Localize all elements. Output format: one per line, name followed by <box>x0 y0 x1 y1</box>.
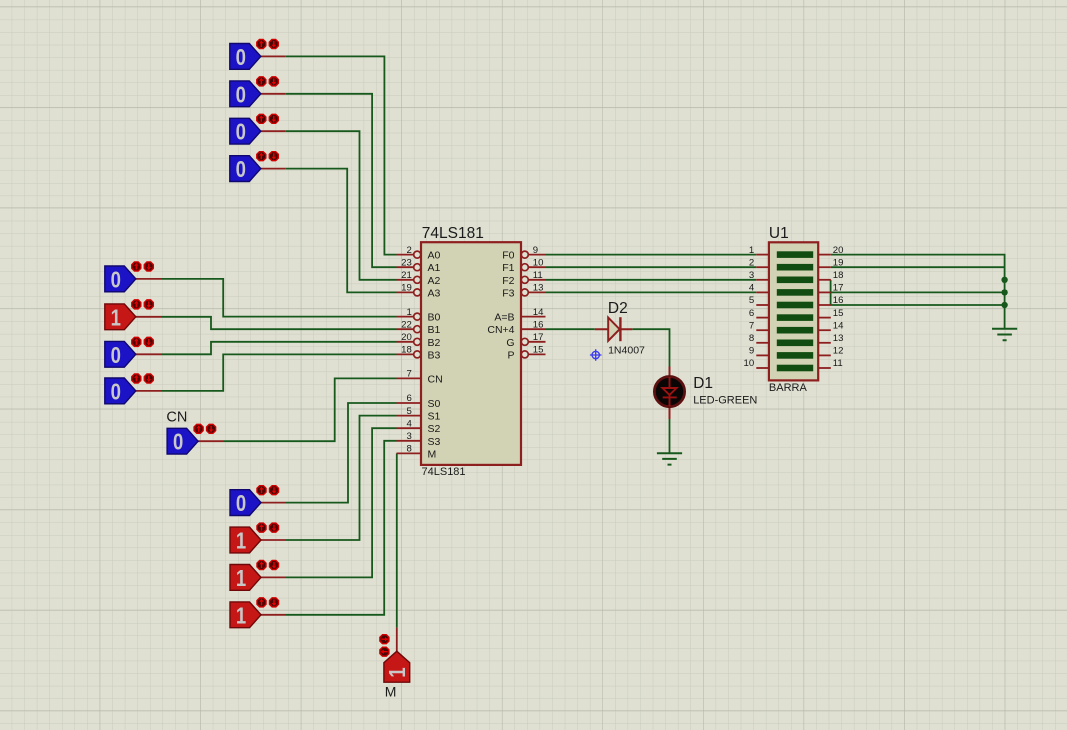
IC 74LS181 body <box>421 242 521 465</box>
svg-text:F1: F1 <box>502 262 514 274</box>
svg-text:6: 6 <box>406 393 411 404</box>
svg-text:11: 11 <box>533 270 543 281</box>
svg-text:U1: U1 <box>769 225 789 242</box>
svg-text:18: 18 <box>401 345 412 356</box>
label BARRA <box>769 382 808 394</box>
svg-text:B3: B3 <box>428 349 441 361</box>
pin B2 (20) <box>397 332 441 349</box>
svg-text:1: 1 <box>111 304 121 330</box>
svg-text:0: 0 <box>236 119 246 145</box>
ground (right rail) <box>992 329 1017 340</box>
U1 pin 1 <box>749 245 769 256</box>
svg-text:17: 17 <box>833 283 844 294</box>
svg-text:D1: D1 <box>693 375 713 392</box>
logic toggle CN (0) <box>167 424 223 454</box>
U1 pin 16 <box>818 295 843 306</box>
logic toggle B1 (1) <box>105 300 161 330</box>
U1 pin 6 <box>749 308 769 319</box>
svg-text:18: 18 <box>833 270 844 281</box>
pin F0 (9) <box>502 245 545 262</box>
pin CN+4 (16) <box>487 319 545 336</box>
svg-text:20: 20 <box>833 245 844 256</box>
wire A0 net <box>286 56 397 254</box>
wire U1 pin17 to rail <box>831 291 1005 293</box>
svg-text:1: 1 <box>236 602 246 628</box>
svg-text:5: 5 <box>406 406 411 417</box>
U1 pin 5 <box>749 295 769 306</box>
svg-text:CN: CN <box>166 410 187 426</box>
svg-text:7: 7 <box>406 369 411 380</box>
svg-text:F2: F2 <box>502 275 514 287</box>
svg-text:9: 9 <box>533 245 538 256</box>
U1 pin 12 <box>818 346 843 357</box>
wire F0 net <box>546 254 757 256</box>
svg-text:1: 1 <box>406 307 411 318</box>
logic toggle A1 (0) <box>230 77 286 107</box>
U1 pin 15 <box>818 308 843 319</box>
pin A2 (21) <box>397 270 441 287</box>
svg-text:1N4007: 1N4007 <box>608 344 645 356</box>
svg-text:14: 14 <box>533 307 544 318</box>
wire F2 net <box>546 279 757 281</box>
label LED-GREEN <box>693 394 757 406</box>
pin A1 (23) <box>397 257 441 274</box>
pin F1 (10) <box>502 257 545 274</box>
pin M (8) <box>397 444 437 461</box>
svg-text:4: 4 <box>406 418 412 429</box>
U1 pin 17 <box>818 283 843 294</box>
svg-text:8: 8 <box>749 333 754 344</box>
logic toggle B2 (0) <box>105 337 161 367</box>
pin F2 (11) <box>502 270 545 287</box>
wire U1 pin20 to ground rail <box>831 255 1005 329</box>
svg-text:17: 17 <box>533 332 544 343</box>
svg-text:S0: S0 <box>428 398 441 410</box>
pin B1 (22) <box>397 319 441 336</box>
svg-text:2: 2 <box>406 245 411 256</box>
svg-text:7: 7 <box>749 320 754 331</box>
wire U1 pin16 to rail <box>831 304 1005 306</box>
svg-text:10: 10 <box>744 358 755 369</box>
U1 pin 13 <box>818 333 843 344</box>
svg-text:S3: S3 <box>428 436 441 448</box>
svg-text:16: 16 <box>533 319 544 330</box>
svg-text:74LS181: 74LS181 <box>422 466 466 478</box>
wire B3 net <box>161 354 397 391</box>
U1 pin 19 <box>818 257 843 268</box>
logic toggle S0 (0) <box>230 486 286 516</box>
svg-text:0: 0 <box>236 490 246 516</box>
wire CN+4 to D2 <box>546 328 595 330</box>
svg-text:F0: F0 <box>502 250 514 262</box>
svg-text:0: 0 <box>111 342 121 368</box>
U1 pin 9 <box>749 346 769 357</box>
pin A3 (19) <box>397 283 441 300</box>
svg-text:D2: D2 <box>608 300 628 317</box>
svg-text:21: 21 <box>401 270 412 281</box>
pin S3 (3) <box>397 431 441 448</box>
svg-text:A0: A0 <box>428 250 441 262</box>
wire D1 to ground <box>669 419 671 453</box>
logic toggle S3 (1) <box>230 598 286 628</box>
svg-text:12: 12 <box>833 346 844 357</box>
svg-text:F3: F3 <box>502 287 514 299</box>
wire B1 net <box>161 317 397 329</box>
label 74LS181 value <box>422 466 466 478</box>
svg-text:1: 1 <box>384 667 410 677</box>
pin B0 (1) <box>397 307 441 324</box>
svg-text:0: 0 <box>111 378 121 404</box>
pin A=B (14) <box>494 307 545 324</box>
wire M net <box>396 453 398 627</box>
svg-text:23: 23 <box>401 257 412 268</box>
U1 pin 8 <box>749 333 769 344</box>
wire A3 net <box>286 169 397 293</box>
logic toggle A3 (0) <box>230 152 286 182</box>
pin B3 (18) <box>397 345 441 362</box>
pin S2 (4) <box>397 418 441 435</box>
junction node <box>1001 277 1007 283</box>
svg-text:13: 13 <box>833 333 844 344</box>
svg-text:0: 0 <box>236 81 246 107</box>
wire D2 to D1 <box>632 329 669 366</box>
svg-text:16: 16 <box>833 295 844 306</box>
wire U1 pin18 elbow <box>830 280 832 305</box>
wire B2 net <box>161 342 397 355</box>
svg-text:A1: A1 <box>428 262 441 274</box>
pin P (15) <box>507 345 545 362</box>
wire S1 net <box>286 416 397 540</box>
svg-text:5: 5 <box>749 295 754 306</box>
U1 pin 18 <box>818 270 843 281</box>
origin marker <box>590 349 602 361</box>
bargraph U1 body (BARRA) <box>769 242 818 380</box>
logic toggle S1 (1) <box>230 523 286 553</box>
svg-text:9: 9 <box>749 346 754 357</box>
svg-text:G: G <box>506 337 514 349</box>
svg-text:4: 4 <box>749 283 755 294</box>
diode D2 <box>595 317 633 341</box>
wire S3 net <box>286 441 397 615</box>
wire A1 net <box>286 94 397 267</box>
svg-text:1: 1 <box>236 565 246 591</box>
svg-text:A3: A3 <box>428 287 441 299</box>
U1 pin 11 <box>818 358 843 369</box>
svg-text:0: 0 <box>236 44 246 70</box>
logic toggle S2 (1) <box>230 560 286 590</box>
LED D1 <box>654 367 684 420</box>
U1 pin 3 <box>749 270 769 281</box>
svg-text:S2: S2 <box>428 423 441 435</box>
label U1 <box>769 225 789 242</box>
svg-text:S1: S1 <box>428 411 441 423</box>
svg-text:19: 19 <box>833 257 844 268</box>
label D2 <box>608 300 628 317</box>
svg-text:11: 11 <box>833 358 843 369</box>
svg-text:19: 19 <box>401 283 412 294</box>
svg-text:BARRA: BARRA <box>769 382 808 394</box>
svg-text:22: 22 <box>401 319 412 330</box>
svg-text:14: 14 <box>833 320 844 331</box>
svg-text:2: 2 <box>749 257 754 268</box>
logic toggle B3 (0) <box>105 374 161 404</box>
svg-text:1: 1 <box>236 528 246 554</box>
svg-text:1: 1 <box>749 245 754 256</box>
label 74LS181 title <box>422 225 484 242</box>
svg-text:8: 8 <box>406 444 411 455</box>
wire U1 pin19 to rail <box>831 266 1005 268</box>
U1 pin 10 <box>744 358 769 369</box>
svg-text:10: 10 <box>533 257 544 268</box>
U1 pin 7 <box>749 320 769 331</box>
wire F1 net <box>546 266 757 268</box>
wire A2 net <box>286 131 397 280</box>
label 1N4007 <box>608 344 645 356</box>
svg-text:CN: CN <box>428 373 443 385</box>
svg-text:15: 15 <box>533 345 544 356</box>
label CN <box>166 410 187 426</box>
pin A0 (2) <box>397 245 441 262</box>
svg-text:CN+4: CN+4 <box>487 324 514 336</box>
wire B0 net <box>161 279 397 317</box>
wire F3 net <box>546 291 757 293</box>
pin G (17) <box>506 332 545 349</box>
logic toggle B0 (0) <box>105 262 161 292</box>
svg-text:3: 3 <box>406 431 411 442</box>
U1 pin 4 <box>749 283 769 294</box>
svg-text:0: 0 <box>236 156 246 182</box>
U1 pin 14 <box>818 320 844 331</box>
wire CN net <box>224 378 397 441</box>
svg-text:15: 15 <box>833 308 844 319</box>
svg-text:LED-GREEN: LED-GREEN <box>693 394 757 406</box>
svg-text:M: M <box>428 448 437 460</box>
svg-text:M: M <box>385 684 397 700</box>
logic toggle M (1) <box>380 628 410 683</box>
svg-text:6: 6 <box>749 308 754 319</box>
pin CN (7) <box>397 369 443 386</box>
wire S0 net <box>286 403 397 503</box>
junction node <box>1001 289 1007 295</box>
ground (below D1) <box>657 453 682 464</box>
svg-text:B1: B1 <box>428 324 441 336</box>
logic toggle A2 (0) <box>230 114 286 144</box>
svg-text:0: 0 <box>111 266 121 292</box>
pin F3 (13) <box>502 283 545 300</box>
svg-text:20: 20 <box>401 332 412 343</box>
svg-text:B2: B2 <box>428 337 441 349</box>
svg-text:B0: B0 <box>428 312 441 324</box>
logic toggle A0 (0) <box>230 39 286 69</box>
svg-text:0: 0 <box>173 429 183 455</box>
U1 pin 20 <box>818 245 843 256</box>
svg-text:P: P <box>507 349 514 361</box>
wire S2 net <box>286 428 397 577</box>
pin S0 (6) <box>397 393 441 410</box>
pin S1 (5) <box>397 406 441 423</box>
svg-text:3: 3 <box>749 270 754 281</box>
svg-text:13: 13 <box>533 283 544 294</box>
U1 pin 2 <box>749 257 769 268</box>
svg-text:A2: A2 <box>428 275 441 287</box>
svg-text:A=B: A=B <box>494 312 514 324</box>
svg-text:74LS181: 74LS181 <box>422 225 484 242</box>
label D1 <box>693 375 713 392</box>
junction node <box>1001 302 1007 308</box>
label M <box>385 684 397 700</box>
